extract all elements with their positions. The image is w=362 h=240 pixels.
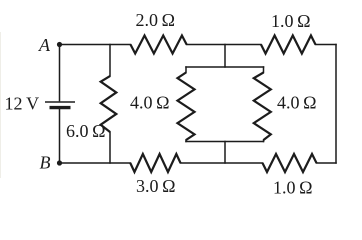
wire: bottom rail from node B to 3.0-ohm resistor <box>60 162 131 164</box>
resistor 3.0 ohm (bottom left, horizontal) <box>130 154 180 172</box>
battery 12 V positive plate (long thin) <box>45 101 75 103</box>
svg-text:B: B <box>40 153 51 173</box>
wire: left 4.0-ohm top lead <box>185 67 187 73</box>
node A junction dot <box>57 42 62 47</box>
wire: top rail from 1.0-ohm resistor to right corner <box>316 44 337 46</box>
wire: top rail between 2.0-ohm and 1.0-ohm resistors <box>187 44 261 46</box>
wire: bottom rail between 3.0-ohm and 1.0-ohm resistors <box>181 162 263 164</box>
resistor 1.0 ohm (top right, horizontal) <box>261 36 315 54</box>
svg-text:A: A <box>38 35 51 55</box>
wire: battery branch lower segment from battery down to node B <box>59 109 61 163</box>
wire: right 4.0-ohm top lead <box>263 67 265 73</box>
svg-text:1.0 Ω: 1.0 Ω <box>273 178 312 198</box>
resistor 2.0 ohm (top left, horizontal) <box>131 36 187 54</box>
node B junction dot <box>57 160 62 165</box>
svg-text:12 V: 12 V <box>5 94 40 114</box>
wire: center stub from top rail down to parallel pair <box>224 45 226 68</box>
svg-text:4.0 Ω: 4.0 Ω <box>277 93 316 113</box>
svg-text:2.0 Ω: 2.0 Ω <box>136 10 175 30</box>
svg-text:3.0 Ω: 3.0 Ω <box>136 176 175 196</box>
wire: top rail of parallel 4.0-ohm pair <box>186 66 264 68</box>
battery 12 V negative plate (short thick) <box>50 106 71 109</box>
wire: 6.0-ohm branch lower lead to bottom rail <box>109 132 111 163</box>
wire: 6.0-ohm branch upper lead from top rail <box>109 45 111 77</box>
resistor 4.0 ohm (vertical, right of parallel pair) <box>254 73 271 141</box>
wire: right side vertical <box>335 45 337 164</box>
resistor 1.0 ohm (bottom right, horizontal) <box>263 154 317 172</box>
resistor 4.0 ohm (vertical, left of parallel pair) <box>178 73 195 141</box>
wire: bottom rail from 1.0-ohm resistor to right corner <box>317 162 337 164</box>
wire: center stub from parallel pair down to bottom rail <box>224 142 226 164</box>
wire: battery branch upper segment from node A down to battery <box>59 45 61 101</box>
wire: left 4.0-ohm bottom lead <box>185 140 187 142</box>
resistor 6.0 ohm (vertical, left branch) <box>101 76 117 132</box>
svg-text:1.0 Ω: 1.0 Ω <box>271 11 310 31</box>
scan artifact: faint line at left edge <box>0 32 2 178</box>
wire: top rail from node A to 2.0-ohm resistor <box>60 44 131 46</box>
svg-text:4.0 Ω: 4.0 Ω <box>130 93 169 113</box>
svg-text:6.0 Ω: 6.0 Ω <box>66 121 105 141</box>
wire: right 4.0-ohm bottom lead <box>263 140 265 142</box>
wire: bottom rail of parallel 4.0-ohm pair <box>186 141 264 143</box>
